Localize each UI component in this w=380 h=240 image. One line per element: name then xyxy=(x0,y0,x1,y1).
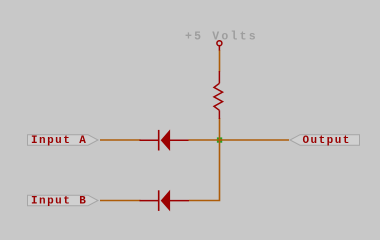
wire from resistor through junction down and left to diode D2 xyxy=(189,118,220,201)
wire diode D1 to junction to Output flag xyxy=(189,139,290,141)
resistor R1 xyxy=(214,71,223,119)
supply pin stub xyxy=(218,46,220,51)
svg-text:Output: Output xyxy=(303,135,351,147)
Input B flag xyxy=(28,195,99,206)
wire Input B flag to diode D2 xyxy=(100,200,141,202)
diode D2 xyxy=(140,190,190,212)
Input A flag xyxy=(28,135,99,146)
Output flag xyxy=(290,135,360,146)
svg-text:Input B: Input B xyxy=(31,196,87,208)
wire Input A flag to diode D1 xyxy=(100,139,141,141)
svg-text:Input A: Input A xyxy=(31,135,87,147)
node junction (green) xyxy=(217,137,222,142)
wire from supply circle to resistor xyxy=(219,50,221,72)
supply pin circle xyxy=(217,41,222,46)
diode D1 xyxy=(140,129,189,151)
